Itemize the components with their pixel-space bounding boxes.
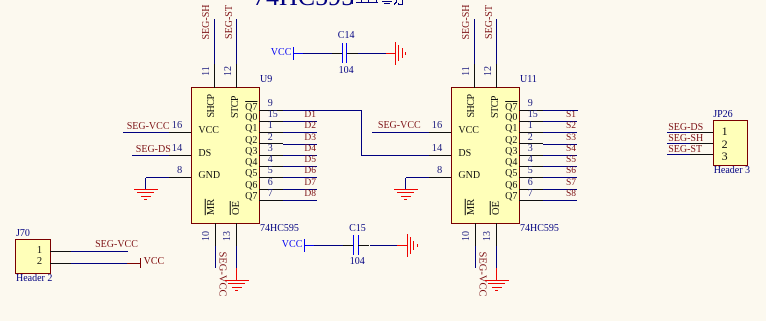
wire SEG-DS to JP26: [667, 132, 691, 133]
pin number 9: [268, 99, 273, 109]
pin name Q7' (serial out): [493, 103, 517, 113]
net label S5: [550, 156, 576, 166]
pin number 14: [166, 144, 182, 155]
wire net D6: [283, 177, 317, 178]
pin number 13: [483, 231, 493, 241]
net label SEG-VCC: [124, 122, 170, 132]
wire net D7: [283, 189, 317, 190]
wire SEG-ST (latch): [496, 19, 497, 64]
JP26 pin name 1: [722, 125, 728, 137]
pin 6 stub: [259, 189, 283, 190]
value label 104 (C14): [339, 66, 354, 76]
net label S4: [550, 145, 576, 155]
pin number 3: [528, 144, 533, 154]
wire SEG-ST to JP26: [667, 154, 691, 155]
ground (OE): [496, 268, 498, 281]
designator C14: [338, 31, 355, 41]
pin 5 stub: [259, 177, 283, 178]
net label D6: [290, 167, 316, 177]
wire net D1: [283, 121, 317, 122]
net label SEG-SH: [202, 4, 212, 39]
pin name SHCP: [207, 95, 217, 118]
pin name Q5: [493, 169, 517, 179]
IC U11 74HC595 body: [451, 87, 521, 224]
net label SEG-VCC (vertical): [216, 251, 227, 296]
pin 3 stub: [519, 155, 543, 156]
wire SEG-DS to U9 pin14: [132, 155, 169, 156]
pin number 15: [528, 110, 538, 120]
connector J70 body: [15, 239, 51, 274]
ground (C15, rotated): [407, 234, 409, 257]
pin number 1: [268, 121, 273, 131]
pin name GND: [198, 171, 220, 181]
pin name Q3: [493, 147, 517, 157]
power port VCC (C14): [271, 48, 292, 58]
pin name MR (active low): [467, 199, 478, 215]
pin number 7: [528, 189, 533, 199]
wire net S6: [543, 177, 577, 178]
wire U11 Q7' (unconnected): [543, 110, 578, 111]
pin number 14: [426, 144, 442, 155]
wire net D3: [283, 144, 317, 145]
pin 3 stub: [259, 155, 283, 156]
JP26 pin name 2: [722, 138, 728, 150]
JP26 pin name 3: [722, 150, 728, 162]
net label SEG-ST: [225, 5, 235, 39]
net label D8: [290, 190, 316, 200]
pin name Q5: [233, 169, 257, 179]
pin 4 stub: [519, 166, 543, 167]
wire C14 to ground: [347, 53, 358, 54]
wire SEG-VCC (MR pullup): [475, 246, 476, 268]
wire net S7: [543, 189, 577, 190]
pin name Q2: [493, 136, 517, 146]
net label SEG-VCC (vertical): [476, 251, 487, 296]
pin 11 stub (SHCP): [214, 64, 215, 88]
pin 14 stub (DS): [429, 155, 451, 156]
pin name Q1: [233, 124, 257, 134]
J70 pin 1 stub: [50, 251, 72, 252]
net label SEG-SH: [462, 4, 472, 39]
pin number 4: [528, 155, 533, 165]
wire VCC from J70 pin2: [71, 263, 127, 264]
pin 2 stub: [519, 143, 543, 144]
pin 7 stub: [259, 200, 283, 201]
pin number 5: [268, 166, 273, 176]
pin name MR (active low): [207, 199, 218, 215]
pin 12 stub (STCP): [236, 64, 237, 88]
pin name Q0: [493, 113, 517, 123]
pin 5 stub: [519, 177, 543, 178]
pin number 2: [528, 133, 533, 143]
pin name STCP: [491, 96, 501, 118]
pin number 11: [202, 66, 212, 76]
pin 2 stub: [259, 143, 283, 144]
pin number 1: [528, 121, 533, 131]
wire net S4: [543, 155, 577, 156]
wire net S3: [543, 144, 577, 145]
designator C15: [349, 224, 366, 234]
net label S7: [550, 179, 576, 189]
pin name Q7: [493, 192, 517, 202]
pin 8 stub (GND): [169, 177, 191, 178]
pin number 10: [202, 231, 212, 241]
pin 4 stub: [259, 166, 283, 167]
pin 10 stub (MR): [475, 223, 476, 246]
part type label Header 3: [714, 166, 750, 176]
net label S2: [550, 122, 576, 132]
pin 14 stub (DS): [169, 155, 191, 156]
connector JP26 body: [713, 120, 749, 166]
pin number 9: [528, 99, 533, 109]
pin 13 stub (OE): [236, 223, 237, 246]
pin 8 stub (GND): [429, 177, 451, 178]
wire net S2: [543, 132, 577, 133]
title chinese char 1 (bottom strokes): [352, 0, 354, 4]
JP26 pin 1 stub: [690, 132, 713, 133]
net label D5: [290, 156, 316, 166]
wire net S8: [543, 200, 577, 201]
net label D1: [290, 111, 316, 121]
pin name Q0: [233, 113, 257, 123]
pin name Q7' (serial out): [233, 103, 257, 113]
wire net S1: [543, 121, 577, 122]
wire SEG-ST (latch): [236, 19, 237, 64]
net label S6: [550, 167, 576, 177]
wire C15 to ground: [358, 245, 369, 246]
pin 6 stub: [519, 189, 543, 190]
pin number 16: [166, 121, 182, 132]
wire SEG-VCC (MR pullup): [215, 246, 216, 268]
pin 15 stub: [519, 121, 543, 122]
pin number 16: [426, 121, 442, 132]
net label SEG-SH (JP26): [668, 134, 703, 144]
pin 11 stub (SHCP): [474, 64, 475, 88]
pin 1 stub: [259, 132, 283, 133]
wire VCC to C14: [293, 53, 303, 54]
pin name GND: [458, 171, 480, 181]
wire SEG-VCC from J70 pin1: [71, 251, 128, 252]
pin name Q1: [493, 124, 517, 134]
capacitor C14 plates: [342, 43, 344, 63]
net label SEG-ST: [485, 5, 495, 39]
pin name Q4: [493, 158, 517, 168]
net label SEG-VCC (U11): [378, 121, 421, 131]
pin name SHCP: [467, 95, 477, 118]
pin number 5: [528, 166, 533, 176]
wire OE to ground: [236, 246, 237, 268]
pin name Q7: [233, 192, 257, 202]
pin number 6: [528, 178, 533, 188]
net label S1: [550, 111, 576, 121]
wire SEG-VCC to U9 pin16: [123, 132, 169, 133]
J70 pin name 2: [37, 257, 42, 268]
pin name Q4: [233, 158, 257, 168]
pin 10 stub (MR): [215, 223, 216, 246]
pin number 6: [268, 178, 273, 188]
pin 12 stub (STCP): [496, 64, 497, 88]
net label SEG-DS (JP26): [668, 123, 703, 133]
pin 7 stub: [519, 200, 543, 201]
wire VCC to C15: [304, 245, 314, 246]
net label SEG-VCC (J70): [95, 240, 138, 250]
power port VCC (J70, maroon): [127, 263, 140, 264]
pin 13 stub (OE): [496, 223, 497, 246]
pin name Q3: [233, 147, 257, 157]
pin number 8: [426, 166, 442, 177]
part type label 74HC595: [520, 224, 559, 234]
ground (U11 GND): [394, 189, 418, 191]
net label SEG-ST (JP26): [668, 145, 702, 155]
ground (OE): [236, 268, 238, 281]
net label D4: [290, 145, 316, 155]
part type label Header 2: [16, 274, 52, 284]
wire U9 pin8 to ground: [146, 177, 169, 178]
designator U11: [520, 75, 537, 85]
pin name Q6: [233, 181, 257, 191]
pin 16 stub (VCC): [429, 132, 451, 133]
ground (U9 GND): [134, 189, 158, 191]
pin number 15: [268, 110, 278, 120]
designator J70: [16, 229, 30, 239]
JP26 pin 3 stub: [690, 154, 713, 155]
ground (C14, rotated): [395, 42, 397, 65]
pin number 4: [268, 155, 273, 165]
designator JP26: [713, 110, 732, 120]
wire net D4: [283, 155, 317, 156]
wire net D8: [283, 200, 317, 201]
net label S3: [550, 134, 576, 144]
net label SEG-DS: [131, 145, 171, 155]
designator U9: [260, 75, 272, 85]
IC U9 74HC595 body: [191, 87, 261, 224]
pin name VCC: [198, 126, 219, 136]
net label D3: [290, 134, 316, 144]
wire SEG-SH to JP26: [667, 143, 691, 144]
wire SEG-SH (clock): [474, 19, 475, 64]
capacitor C15 plates: [353, 235, 355, 255]
pin name DS: [198, 149, 211, 159]
pin 9 stub: [519, 110, 543, 111]
wire U9 Q7' to U11 DS (serial cascade): [283, 110, 362, 111]
title text 74HC595 driver (cut off at top edge): [253, 0, 354, 10]
pin 15 stub: [259, 121, 283, 122]
pin 16 stub (VCC): [169, 132, 191, 133]
pin number 12: [224, 66, 234, 76]
title chinese char 2 (bottom strokes): [382, 1, 392, 3]
net label D2: [290, 122, 316, 132]
value label 104 (C15): [350, 257, 365, 267]
pin name STCP: [231, 96, 241, 118]
pin name OE (active low): [491, 201, 502, 215]
part type label 74HC595: [260, 224, 299, 234]
pin name OE (active low): [231, 201, 242, 215]
net label S8: [550, 190, 576, 200]
J70 pin name 1: [37, 246, 42, 257]
power port VCC (C15): [282, 240, 303, 250]
wire SEG-VCC to U11 pin16: [372, 132, 429, 133]
wire SEG-SH (clock): [214, 19, 215, 64]
J70 pin 2 stub: [50, 263, 72, 264]
pin number 11: [462, 66, 472, 76]
net label D7: [290, 179, 316, 189]
wire net D2: [283, 132, 317, 133]
pin number 10: [462, 231, 472, 241]
pin name Q6: [493, 181, 517, 191]
wire net D5: [283, 166, 317, 167]
wire U11 pin8 to ground: [406, 177, 429, 178]
wire OE to ground: [496, 246, 497, 268]
pin 9 stub: [259, 110, 283, 111]
pin number 7: [268, 189, 273, 199]
pin number 8: [166, 166, 182, 177]
pin number 13: [223, 231, 233, 241]
pin number 12: [484, 66, 494, 76]
JP26 pin 2 stub: [690, 143, 713, 144]
pin number 2: [268, 133, 273, 143]
pin name Q2: [233, 136, 257, 146]
pin number 3: [268, 144, 273, 154]
pin name VCC: [458, 126, 479, 136]
pin name DS: [458, 149, 471, 159]
wire net S5: [543, 166, 577, 167]
pin 1 stub: [519, 132, 543, 133]
